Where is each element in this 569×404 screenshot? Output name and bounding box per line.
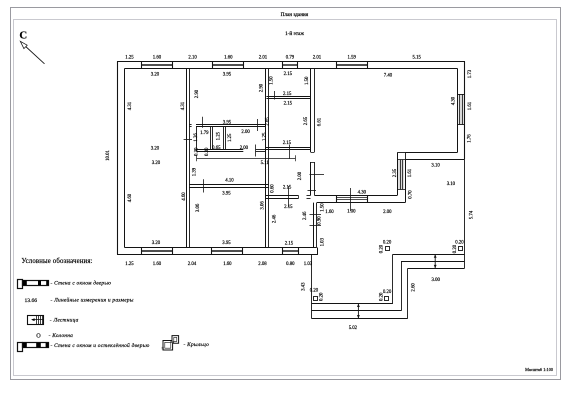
- svg-text:0.30: 0.30: [205, 147, 210, 156]
- north arrow head: [20, 41, 27, 48]
- svg-text:0.30: 0.30: [195, 147, 200, 156]
- svg-text:2.90: 2.90: [195, 89, 200, 98]
- exterior left wall: [117, 62, 119, 255]
- svg-text:1.50: 1.50: [270, 76, 275, 85]
- svg-text:1.25: 1.25: [263, 132, 268, 141]
- wall 4.10 top of bottom-middle room: [189, 184, 269, 186]
- svg-text:2.35: 2.35: [393, 168, 398, 177]
- svg-text:0.20: 0.20: [383, 240, 392, 245]
- svg-text:- Колонна: - Колонна: [49, 333, 74, 339]
- svg-text:2.04: 2.04: [188, 262, 197, 267]
- svg-text:3.10: 3.10: [447, 182, 456, 187]
- legend stairs symbol: [28, 316, 44, 325]
- exterior right wall: [464, 62, 466, 160]
- svg-text:5.74: 5.74: [469, 210, 474, 219]
- svg-text:1.59: 1.59: [347, 56, 356, 61]
- svg-text:0.20: 0.20: [455, 240, 464, 245]
- svg-text:1.25: 1.25: [228, 133, 233, 142]
- svg-text:1.60: 1.60: [153, 262, 162, 267]
- svg-text:5.02: 5.02: [349, 326, 358, 331]
- svg-text:4.60: 4.60: [182, 192, 187, 201]
- svg-text:1.50: 1.50: [320, 203, 325, 212]
- svg-text:3.95: 3.95: [223, 73, 232, 78]
- door tick 1.00 in wall 4.30: [350, 188, 352, 211]
- window in wall 4.30: [336, 195, 338, 202]
- exterior bottom wall: [117, 254, 318, 256]
- svg-text:0.60: 0.60: [271, 184, 276, 193]
- interior wall center vertical: [265, 69, 267, 248]
- svg-text:1.25: 1.25: [217, 131, 222, 140]
- interior wall room A | rooms right, full height: [186, 69, 188, 248]
- glazed window right wall: [458, 94, 463, 125]
- svg-text:3.20: 3.20: [152, 161, 161, 166]
- svg-text:2.10: 2.10: [188, 56, 197, 61]
- svg-text:2.01: 2.01: [259, 56, 268, 61]
- dim tick room E: [288, 186, 290, 207]
- room E top wall right stub: [307, 195, 311, 197]
- terrace inner corner vertical: [392, 254, 394, 303]
- svg-text:1-й этаж: 1-й этаж: [285, 30, 304, 37]
- window bottom-1: [141, 248, 143, 255]
- svg-text:План здания: План здания: [281, 12, 309, 18]
- svg-text:2.15: 2.15: [284, 72, 293, 77]
- svg-text:0.20: 0.20: [319, 292, 324, 301]
- room E top wall: [266, 195, 299, 197]
- svg-text:3.95: 3.95: [223, 121, 232, 126]
- legend wall-with-window symbol: [18, 280, 23, 289]
- svg-text:0.20: 0.20: [380, 244, 385, 253]
- svg-text:3.20: 3.20: [152, 241, 161, 246]
- svg-text:0.20: 0.20: [379, 292, 384, 301]
- svg-text:4.30: 4.30: [452, 96, 457, 105]
- room C2 bottom wall: [266, 147, 311, 149]
- window bottom-2: [211, 248, 213, 255]
- door tick closet wall: [255, 145, 257, 157]
- svg-text:3.10: 3.10: [431, 164, 440, 169]
- room E right wall: [313, 203, 315, 248]
- porch arrow bottom: [357, 304, 359, 319]
- terrace south edge of right part: [393, 254, 465, 256]
- svg-text:- Линейные измерения и размеры: - Линейные измерения и размеры: [51, 296, 134, 303]
- column K1: [314, 297, 318, 301]
- svg-text:3.43: 3.43: [302, 282, 307, 291]
- svg-text:1.60: 1.60: [325, 210, 334, 215]
- window top-3: [282, 62, 284, 69]
- svg-text:7.40: 7.40: [384, 74, 393, 79]
- legend porch symbol: [163, 336, 179, 350]
- glazed vertical wall with window 1.61: [397, 152, 399, 195]
- wall 3.10 bottom of right room: [405, 152, 457, 154]
- svg-text:3.95: 3.95: [222, 191, 231, 196]
- svg-text:2.01: 2.01: [313, 56, 322, 61]
- dimension line 5.11: [197, 158, 295, 160]
- svg-text:0.79: 0.79: [286, 56, 295, 61]
- svg-text:0.70: 0.70: [409, 190, 414, 199]
- terrace bottom edge: [312, 303, 393, 305]
- svg-text:0.80: 0.80: [286, 262, 295, 267]
- exterior top wall: [117, 61, 465, 63]
- porch step line bottom 2: [312, 318, 408, 320]
- svg-text:0.20: 0.20: [310, 289, 319, 294]
- svg-text:3.20: 3.20: [151, 73, 160, 78]
- porch step line right 2: [408, 268, 465, 270]
- svg-text:5.11: 5.11: [261, 161, 270, 166]
- door tick in wall 4.10: [203, 179, 205, 192]
- svg-text:2.00: 2.00: [240, 146, 249, 151]
- svg-text:4.31: 4.31: [128, 101, 133, 110]
- closet partition walls: [210, 127, 212, 151]
- svg-text:0.20: 0.20: [453, 244, 458, 253]
- svg-text:1.60: 1.60: [153, 56, 162, 61]
- svg-text:0.90: 0.90: [318, 216, 323, 225]
- glazed window vertical: [398, 160, 404, 190]
- porch step vertical 1: [401, 262, 403, 311]
- window top-4: [336, 62, 338, 69]
- svg-text:О: О: [36, 332, 41, 339]
- svg-text:2.00: 2.00: [298, 171, 303, 180]
- svg-text:Масштаб 1:100: Масштаб 1:100: [525, 367, 553, 372]
- svg-text:2.15: 2.15: [283, 186, 292, 191]
- svg-text:2.65: 2.65: [304, 116, 309, 125]
- svg-text:3.06: 3.06: [196, 203, 201, 212]
- svg-text:10.01: 10.01: [106, 150, 111, 161]
- door tick in wall room A: [184, 139, 192, 141]
- window top-2: [212, 62, 214, 69]
- svg-text:2.46: 2.46: [272, 214, 277, 223]
- svg-text:2.46: 2.46: [303, 211, 308, 220]
- svg-text:2.65: 2.65: [265, 117, 270, 126]
- porch arrow right: [434, 254, 436, 268]
- porch step line bottom 1: [312, 310, 402, 312]
- interior wall small rooms | living room: [310, 69, 312, 153]
- svg-text:2.00: 2.00: [241, 130, 250, 135]
- svg-text:3.95: 3.95: [222, 241, 231, 246]
- svg-text:2.15: 2.15: [284, 205, 293, 210]
- svg-text:3.06: 3.06: [260, 201, 265, 210]
- svg-text:- Стена с окном дверью: - Стена с окном дверью: [51, 279, 112, 286]
- room C bottom wall: [266, 96, 310, 98]
- svg-text:- Стена с окном и остеклённой: - Стена с окном и остеклённой дверью: [51, 342, 150, 349]
- svg-text:5.15: 5.15: [412, 56, 421, 61]
- porch step vertical 2: [407, 268, 409, 318]
- svg-text:1.03: 1.03: [320, 237, 325, 246]
- svg-text:1.76: 1.76: [468, 134, 473, 143]
- svg-text:2.08: 2.08: [258, 262, 267, 267]
- svg-text:6.61: 6.61: [318, 117, 323, 126]
- svg-text:1.25: 1.25: [125, 56, 134, 61]
- svg-text:1.39: 1.39: [193, 167, 198, 176]
- closet bottom wall: [197, 149, 244, 151]
- window bottom-3: [282, 248, 284, 255]
- dim tick at bottom of corridor wall: [308, 190, 317, 192]
- terrace right edge: [464, 159, 466, 268]
- door ticks room E right wall: [310, 214, 322, 216]
- svg-text:2.60: 2.60: [412, 283, 417, 292]
- svg-text:1.60: 1.60: [223, 262, 232, 267]
- svg-text:1.50: 1.50: [305, 76, 310, 85]
- svg-text:4.30: 4.30: [358, 191, 367, 196]
- svg-text:Условные обозначения:: Условные обозначения:: [22, 258, 93, 265]
- svg-text:1.03: 1.03: [304, 262, 313, 267]
- svg-text:3.00: 3.00: [431, 278, 440, 283]
- svg-text:13.66: 13.66: [25, 298, 38, 304]
- svg-text:1.00: 1.00: [347, 210, 356, 215]
- svg-text:- Крыльцо: - Крыльцо: [184, 342, 210, 348]
- svg-text:2.15: 2.15: [284, 101, 293, 106]
- svg-text:1.26: 1.26: [194, 133, 199, 142]
- room B bottom wall: [189, 124, 192, 126]
- svg-text:4.10: 4.10: [225, 178, 234, 183]
- window top-1: [141, 62, 143, 69]
- svg-text:0.65: 0.65: [212, 146, 221, 151]
- column K2: [385, 297, 389, 301]
- svg-text:2.15: 2.15: [285, 241, 294, 246]
- svg-text:1.79: 1.79: [200, 131, 209, 136]
- column K3: [386, 247, 390, 251]
- svg-text:2.15: 2.15: [283, 92, 292, 97]
- column K4: [459, 247, 463, 251]
- svg-text:4.60: 4.60: [128, 193, 133, 202]
- door tick in room C bottom wall: [274, 91, 276, 100]
- door tick in room B bottom wall: [202, 117, 204, 128]
- dim tick 2.00 right of corridor: [310, 174, 325, 176]
- svg-text:2.00: 2.00: [383, 210, 392, 215]
- legend glazed wall symbol: [18, 343, 23, 352]
- svg-text:С: С: [19, 30, 27, 42]
- wall 4.30 with window: [314, 195, 397, 197]
- porch step line right 1: [401, 261, 465, 263]
- svg-text:1.60: 1.60: [224, 56, 233, 61]
- svg-text:2.90: 2.90: [259, 83, 264, 92]
- svg-text:4.31: 4.31: [181, 101, 186, 110]
- svg-text:1.25: 1.25: [125, 262, 134, 267]
- svg-text:3.20: 3.20: [151, 147, 160, 152]
- svg-text:1.61: 1.61: [468, 101, 473, 110]
- terrace left edge: [311, 255, 313, 319]
- svg-text:1.73: 1.73: [468, 69, 473, 78]
- svg-text:- Лестница: - Лестница: [50, 318, 79, 324]
- door tick in room C2 bottom wall: [289, 145, 291, 159]
- north arrow line: [24, 45, 45, 64]
- svg-text:1.61: 1.61: [408, 168, 413, 177]
- closet left cap: [196, 127, 198, 152]
- svg-text:2.15: 2.15: [283, 141, 292, 146]
